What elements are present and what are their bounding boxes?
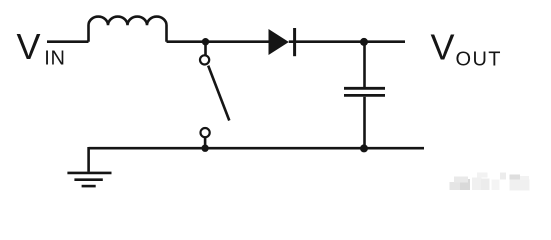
node: switch top junction [202,38,209,45]
node: diode-capacitor junction [360,38,368,46]
wire ground stem [87,147,90,172]
svg-text:V: V [431,27,455,68]
wire output node to VOUT terminal [364,40,405,43]
svg-text:OUT: OUT [456,49,502,71]
svg-text:IN: IN [44,48,65,70]
ground [67,173,111,186]
node: capacitor bottom junction [360,144,368,152]
wire diode cathode to output node [289,40,364,43]
svg-text:V: V [17,26,41,67]
node: switch bottom junction [201,145,208,152]
diode D1 [269,28,295,56]
switch S1 [200,42,229,149]
label VIN [17,26,66,70]
capacitor C1 [344,42,385,148]
wire VIN to inductor [47,40,89,43]
inductor L1 [89,17,167,42]
bottom ground rail wire [89,147,424,150]
wire inductor to switch node [167,40,206,43]
label VOUT [431,27,502,71]
wire switch node to diode anode [206,40,270,43]
